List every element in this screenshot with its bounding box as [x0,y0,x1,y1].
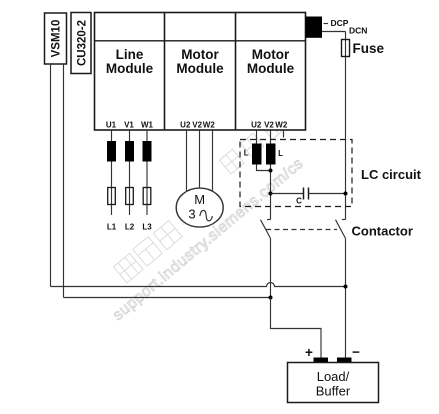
wire motor V2 [199,130,201,196]
svg-text:V1: V1 [124,121,134,130]
svg-text:V2: V2 [264,121,274,130]
header divider line [95,40,306,42]
svg-text:Buffer: Buffer [316,384,351,399]
wire right inductor down [270,165,272,220]
line fuse phase L2 [126,188,134,205]
svg-text:L: L [278,149,283,158]
wire V2 to inductor [270,130,272,144]
DCP busbar terminal [306,17,323,38]
wire DCN vertical down to contactor [345,32,347,220]
svg-text:Contactor: Contactor [352,224,413,239]
wire to plus terminal [271,298,322,358]
line reactor phase W1 [143,141,152,162]
svg-text:+: + [305,345,313,360]
divider line module2/module3 [235,13,237,131]
svg-text:C: C [296,197,302,206]
DCP label [324,18,349,28]
line reactor phase U1 [107,141,116,162]
Motor Module 1 label [176,47,224,76]
wire motor W2 [212,130,214,196]
inductor L (right) [266,144,276,165]
svg-text:Module: Module [176,61,224,76]
svg-text:3: 3 [188,207,195,222]
svg-text:Motor: Motor [252,47,290,62]
wire left pole down [270,238,272,297]
svg-text:U2: U2 [251,121,262,130]
svg-text:VSM10: VSM10 [51,20,63,58]
watermark [110,98,307,324]
LC circuit dashed box [240,140,352,207]
divider line module1/module2 [164,13,166,131]
line fuse phase L3 [143,188,151,205]
svg-text:Module: Module [247,61,295,76]
capacitor C [271,188,346,200]
svg-text:−: − [352,345,360,360]
VSM10 sense wire 2 (vertical) [63,64,65,298]
wire W1 [146,130,148,215]
svg-text:Load/: Load/ [317,369,350,384]
svg-text:V2: V2 [192,121,202,130]
junction sense wire 1 / DCN line [344,285,348,289]
svg-text:L: L [244,149,249,158]
terminal labels U2 V2 W2 (motor module 2) [251,121,288,130]
DCN wire [322,31,346,33]
svg-text:Motor: Motor [181,47,219,62]
svg-text:DCP: DCP [331,18,349,28]
wire left inductor to junction [257,165,271,171]
terminal labels U1 V1 W1 [106,121,154,130]
CU320-2 control unit box [71,13,91,74]
drive line-up outer box [95,13,306,131]
minus terminal block [337,358,352,364]
wire W2 stub [283,130,285,138]
svg-text:W1: W1 [141,121,154,130]
Load/Buffer box [288,363,379,403]
svg-text:L2: L2 [125,223,135,232]
motor M 3~ [176,188,223,227]
plus terminal block [314,358,329,364]
contactor mechanical link (dashed) [266,229,337,231]
line fuse phase L1 [108,188,116,205]
svg-text:L1: L1 [107,223,117,232]
svg-text:DCN: DCN [349,26,367,36]
Line Module label [106,47,154,76]
wire V1 [129,130,131,215]
wire motor U2 [186,130,188,196]
fuse F (DC link) [342,40,350,57]
line reactor phase V1 [125,141,134,162]
contactor left pole [261,220,271,239]
svg-text:W2: W2 [275,121,288,130]
sense wire 2 horizontal [64,297,271,299]
svg-text:U1: U1 [106,121,117,130]
wire right pole down to minus terminal [345,238,347,357]
VSM10 module box [45,13,67,64]
terminal labels U2 V2 W2 (motor module 1) [180,121,215,130]
junction sense wire 2 / left pole line [269,296,273,300]
inductor L (left) [252,144,262,165]
wire U1 [111,130,113,215]
sense wire 1 horizontal with hop [51,283,346,287]
svg-text:LC circuit: LC circuit [361,167,422,182]
junction at capacitor right [344,192,348,196]
VSM10 sense wire 1 (vertical) [50,64,52,287]
junction at capacitor left [269,192,273,196]
svg-text:W2: W2 [203,121,216,130]
svg-text:L3: L3 [142,223,152,232]
svg-text:Line: Line [116,47,144,62]
junction below inductors [269,169,273,173]
contactor right pole [336,220,346,239]
svg-text:M: M [194,192,205,207]
svg-text:Fuse: Fuse [353,41,385,56]
svg-text:Module: Module [106,61,154,76]
svg-text:U2: U2 [180,121,191,130]
Motor Module 2 label [247,47,295,76]
svg-text:CU320-2: CU320-2 [77,20,89,66]
wire U2 to inductor [256,130,258,144]
